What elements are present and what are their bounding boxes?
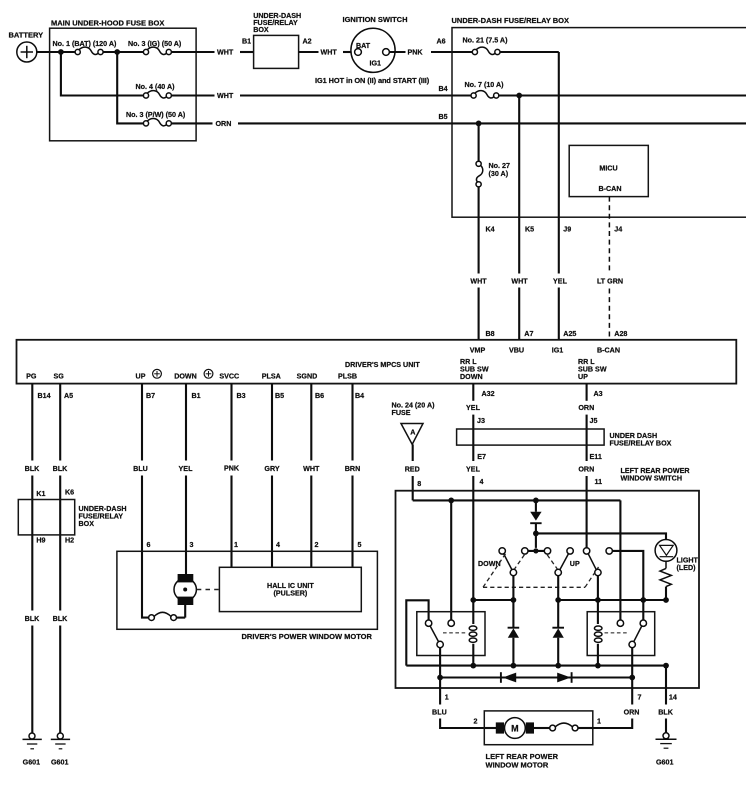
wire SG BLK <box>53 384 69 733</box>
wire PG BLK <box>25 384 41 733</box>
wire A3 ORN pin 11 <box>578 384 594 548</box>
ground G601 second <box>51 733 70 767</box>
wire branch down to No.4 <box>61 52 143 96</box>
svg-text:MICU: MICU <box>599 165 617 173</box>
svg-text:4: 4 <box>480 478 484 486</box>
svg-text:B5: B5 <box>275 392 284 400</box>
svg-text:K1: K1 <box>36 490 45 498</box>
commutator switch (driver motor) <box>149 605 186 621</box>
svg-text:YEL: YEL <box>466 465 481 473</box>
svg-text:WHT: WHT <box>217 49 234 57</box>
bus left (YEL node) <box>473 599 513 601</box>
svg-text:PNK: PNK <box>224 464 240 472</box>
motor symbol UP <box>153 369 162 378</box>
svg-text:IG1 HOT in ON (II) and START (: IG1 HOT in ON (II) and START (III) <box>315 76 430 85</box>
svg-text:2: 2 <box>474 718 478 726</box>
wire fuse24 RED pin 8 <box>405 444 420 500</box>
wire K4 vertical WHT <box>470 187 487 340</box>
left rear power window switch box <box>396 491 700 688</box>
wire RED to relay1 contact <box>450 500 452 620</box>
bus right (ground node) <box>558 599 666 601</box>
svg-text:MAIN UNDER-HOOD FUSE BOX: MAIN UNDER-HOOD FUSE BOX <box>51 19 164 28</box>
wire DOWN contact drop <box>512 576 514 600</box>
svg-text:BLK: BLK <box>658 708 674 716</box>
svg-text:UNDER-DASH FUSE/RELAY BOX: UNDER-DASH FUSE/RELAY BOX <box>452 16 570 25</box>
svg-text:BRN: BRN <box>345 465 360 473</box>
svg-text:1: 1 <box>445 694 449 702</box>
lower contact circles <box>510 569 601 575</box>
wire battery to fuse box <box>37 51 75 53</box>
svg-text:H9: H9 <box>36 536 45 544</box>
node contact6 drop <box>640 597 646 603</box>
svg-text:ORN: ORN <box>578 404 594 412</box>
node battery feed <box>58 49 64 55</box>
node YEL-coil1 <box>470 597 476 603</box>
svg-text:E11: E11 <box>590 453 602 461</box>
wire PNK to A6 <box>389 49 452 57</box>
fuse No.27 (30 A) vertical <box>476 123 510 186</box>
node RED to relay1 <box>448 498 454 504</box>
svg-text:SVCC: SVCC <box>219 372 239 380</box>
svg-text:FUSE/RELAY BOX: FUSE/RELAY BOX <box>610 440 672 448</box>
svg-text:(LED): (LED) <box>677 564 697 572</box>
svg-text:No. 3 (P/W) (50 A): No. 3 (P/W) (50 A) <box>126 111 186 119</box>
LED light <box>655 540 698 572</box>
wire row1 to B1 box <box>240 51 254 53</box>
node diode2 ground <box>555 663 561 669</box>
svg-text:RED: RED <box>405 465 420 473</box>
relay2 coil <box>594 600 602 666</box>
driver's power window motor box <box>117 551 378 641</box>
svg-text:4: 4 <box>276 541 280 549</box>
wire contact6 to ground bus <box>612 551 643 600</box>
wire row2 WHT to under-dash box <box>171 92 452 100</box>
fuse No.4 (40 A) <box>136 83 176 98</box>
node centre-diode <box>555 597 561 603</box>
node contact common <box>533 548 538 553</box>
svg-text:K5: K5 <box>525 225 534 233</box>
pin label RR L SUB SW UP <box>578 358 607 381</box>
node diode1 ground <box>511 663 517 669</box>
svg-text:G601: G601 <box>656 759 673 767</box>
svg-text:BOX: BOX <box>79 520 95 528</box>
wire B4 BRN <box>345 384 360 568</box>
wire pin14 BLK to ground <box>658 666 674 733</box>
svg-text:K4: K4 <box>486 225 495 233</box>
svg-text:YEL: YEL <box>553 278 568 286</box>
node diode out <box>533 531 539 537</box>
svg-text:(30 A): (30 A) <box>489 170 509 178</box>
node bus to pin14 <box>663 663 669 669</box>
wire B1 YEL <box>179 384 194 575</box>
wire B6 WHT <box>303 384 320 568</box>
svg-text:WINDOW SWITCH: WINDOW SWITCH <box>621 474 682 482</box>
svg-text:2: 2 <box>315 541 319 549</box>
svg-text:BAT: BAT <box>356 42 371 50</box>
ground G601 left <box>23 733 42 767</box>
relay1 dashed link <box>443 632 467 634</box>
svg-text:8: 8 <box>417 480 421 488</box>
node UP-coil2 <box>595 597 601 603</box>
svg-text:H2: H2 <box>65 536 74 544</box>
svg-text:B-CAN: B-CAN <box>597 347 620 355</box>
motor armature (left rear) <box>484 718 534 739</box>
hook relay1 NC contact to ground bus <box>406 600 428 665</box>
svg-text:No. 1 (BAT) (120 A): No. 1 (BAT) (120 A) <box>53 40 117 48</box>
svg-text:BLK: BLK <box>53 615 69 623</box>
wire UP contact drop <box>597 576 599 600</box>
svg-text:B14: B14 <box>38 392 51 400</box>
main under-hood fuse box <box>50 19 197 141</box>
svg-text:IG1: IG1 <box>552 347 564 355</box>
svg-text:J5: J5 <box>590 417 598 425</box>
svg-text:A2: A2 <box>303 38 312 46</box>
node RED to diode <box>533 498 539 504</box>
ignition switch <box>343 15 408 72</box>
svg-text:No. 21 (7.5 A): No. 21 (7.5 A) <box>463 36 509 44</box>
svg-text:No. 4 (40 A): No. 4 (40 A) <box>136 83 176 91</box>
link contact 2-3 <box>528 550 545 552</box>
svg-text:BLK: BLK <box>25 615 41 623</box>
blade DOWN switch <box>504 554 512 570</box>
svg-text:B6: B6 <box>315 392 324 400</box>
svg-text:WHT: WHT <box>470 278 487 286</box>
svg-text:DOWN: DOWN <box>174 372 197 380</box>
diode centre clamp <box>552 600 564 666</box>
svg-text:1: 1 <box>597 718 601 726</box>
svg-text:UP: UP <box>578 373 588 381</box>
svg-text:B5: B5 <box>439 113 448 121</box>
fuse No.3 (P/W) (50 A) <box>126 111 186 126</box>
wire relay2 output pin7 <box>593 648 640 728</box>
svg-text:UP: UP <box>136 372 146 380</box>
wire No.21 to J9 <box>500 51 559 53</box>
svg-text:GRY: GRY <box>264 465 279 473</box>
resistor for LED <box>660 561 671 600</box>
svg-text:B3: B3 <box>237 392 246 400</box>
motor symbol DOWN <box>204 369 213 378</box>
node K5 <box>516 93 522 99</box>
svg-text:A32: A32 <box>482 390 495 398</box>
svg-text:DOWN: DOWN <box>460 373 483 381</box>
svg-text:WHT: WHT <box>303 465 320 473</box>
node B5 <box>476 121 482 127</box>
fuse No.21 (7.5 A) <box>452 36 508 54</box>
blade centre switch <box>560 554 569 570</box>
wire A32 YEL pin 4 <box>466 384 481 601</box>
svg-text:YEL: YEL <box>179 465 194 473</box>
svg-text:7: 7 <box>638 694 642 702</box>
svg-text:G601: G601 <box>23 759 40 767</box>
wire B3 PNK <box>224 384 240 568</box>
svg-text:ORN: ORN <box>624 708 640 716</box>
driver's MPCS unit box <box>17 340 737 384</box>
contact row circles <box>499 548 612 554</box>
svg-text:G601: G601 <box>51 759 68 767</box>
svg-text:B4: B4 <box>355 392 364 400</box>
blade UP switch <box>588 554 596 570</box>
svg-text:B1: B1 <box>192 392 201 400</box>
wire RED to relay2 contact <box>619 500 621 620</box>
ground G601 right <box>656 733 677 767</box>
fuse No.3 (IG) (50 A) <box>128 40 182 55</box>
node LED return <box>663 597 669 603</box>
svg-text:(PULSER): (PULSER) <box>274 590 308 598</box>
under-dash fuse/relay box (ground pass) <box>18 500 126 535</box>
left rear power window motor box <box>484 711 593 770</box>
svg-text:BLU: BLU <box>133 465 148 473</box>
fuse No.7 (10 A) <box>452 81 504 98</box>
svg-text:J9: J9 <box>563 225 571 233</box>
svg-text:B1: B1 <box>242 38 251 46</box>
dashed actuator linkage <box>483 554 599 588</box>
svg-text:B7: B7 <box>146 392 155 400</box>
svg-text:PLSA: PLSA <box>262 372 281 380</box>
diode main feed <box>530 500 541 533</box>
hall IC unit (pulser) box <box>219 567 361 611</box>
svg-text:BLK: BLK <box>25 465 41 473</box>
diode DOWN clamp <box>508 600 520 666</box>
svg-text:6: 6 <box>147 541 151 549</box>
svg-text:1: 1 <box>234 541 238 549</box>
svg-text:WHT: WHT <box>321 49 338 57</box>
wire A2 WHT to ignition <box>299 49 355 57</box>
node DOWN-diode <box>511 597 517 603</box>
fuse No.1 (BAT) (120 A) <box>53 40 117 55</box>
svg-text:VMP: VMP <box>470 347 486 355</box>
svg-text:BOX: BOX <box>253 26 269 34</box>
wire fuse1 to fuse2 <box>103 51 143 53</box>
svg-text:A6: A6 <box>437 38 446 46</box>
svg-text:WHT: WHT <box>217 92 234 100</box>
svg-text:A25: A25 <box>563 330 576 338</box>
svg-text:ORN: ORN <box>216 120 232 128</box>
diode left (cross line) <box>501 672 516 683</box>
wire branch down to No.3 P/W <box>117 52 143 123</box>
svg-text:SGND: SGND <box>297 372 318 380</box>
node IG feed <box>114 49 120 55</box>
MICU box <box>569 145 648 196</box>
left rear power window switch title <box>621 467 691 483</box>
wire B7 BLU <box>133 384 148 618</box>
relay1 contacts <box>425 620 454 648</box>
svg-text:5: 5 <box>358 541 362 549</box>
svg-text:WINDOW MOTOR: WINDOW MOTOR <box>486 760 549 769</box>
svg-text:B4: B4 <box>439 85 448 93</box>
svg-text:DRIVER'S MPCS UNIT: DRIVER'S MPCS UNIT <box>345 361 420 369</box>
svg-text:BLK: BLK <box>53 465 69 473</box>
fuse No.24 (20 A) tap <box>392 402 436 445</box>
wire diode to contact common <box>535 533 537 548</box>
relay2 dashed link <box>605 632 629 634</box>
wire B5 GRY <box>264 384 279 568</box>
svg-text:B8: B8 <box>486 330 495 338</box>
wire row3 ORN to under-dash box <box>171 120 452 128</box>
relay1 coil <box>469 600 477 666</box>
svg-text:WHT: WHT <box>511 278 528 286</box>
svg-text:J3: J3 <box>477 417 485 425</box>
svg-text:A7: A7 <box>524 330 533 338</box>
wire centre contact drop <box>557 576 559 600</box>
svg-text:PLSB: PLSB <box>338 372 357 380</box>
wire K5 vertical WHT <box>511 96 528 340</box>
wire relay1 output pin1 <box>432 648 484 728</box>
under-dash fuse/relay box (top right) <box>452 16 746 217</box>
battery <box>9 31 44 63</box>
svg-text:14: 14 <box>669 694 677 702</box>
node coil1 ground <box>470 663 476 669</box>
diode right (cross line) <box>557 672 571 683</box>
svg-text:A28: A28 <box>614 330 627 338</box>
wire J4 dashed LT GRN <box>597 197 623 340</box>
svg-text:PG: PG <box>26 372 37 380</box>
wire LED feed <box>536 533 666 539</box>
svg-text:B-CAN: B-CAN <box>598 185 621 193</box>
svg-text:11: 11 <box>595 478 603 486</box>
svg-text:E7: E7 <box>477 453 486 461</box>
wire row B4 across box <box>499 94 746 96</box>
svg-text:A3: A3 <box>594 390 603 398</box>
motor armature (driver) <box>174 574 196 605</box>
svg-text:SG: SG <box>54 372 65 380</box>
dashed link motor to hall <box>197 589 220 591</box>
svg-text:M: M <box>511 723 519 733</box>
svg-text:LT GRN: LT GRN <box>597 278 623 286</box>
svg-text:FUSE: FUSE <box>392 409 411 417</box>
svg-text:YEL: YEL <box>466 404 481 412</box>
svg-text:No. 3 (IG) (50 A): No. 3 (IG) (50 A) <box>128 40 182 48</box>
svg-text:UP: UP <box>570 560 580 568</box>
svg-text:VBU: VBU <box>509 347 524 355</box>
svg-text:A5: A5 <box>64 392 73 400</box>
svg-text:DRIVER'S POWER WINDOW MOTOR: DRIVER'S POWER WINDOW MOTOR <box>242 632 373 641</box>
svg-text:A: A <box>410 428 415 436</box>
svg-text:K6: K6 <box>65 489 74 497</box>
wire RED feed bus <box>413 499 621 501</box>
relay coil box left <box>417 612 485 656</box>
node pin1 cross line <box>437 675 443 681</box>
under-dash fuse/relay box B1-A2 <box>253 12 301 69</box>
node coil2 ground <box>595 663 601 669</box>
wire row B5 across box <box>452 122 746 124</box>
under dash fuse/relay box (J3-J5) <box>457 429 672 448</box>
relay2 contacts <box>617 620 646 648</box>
svg-text:IGNITION SWITCH: IGNITION SWITCH <box>343 15 408 24</box>
relay coil box right <box>587 612 655 656</box>
pin label RR L SUB SW DOWN <box>460 358 489 381</box>
svg-text:BATTERY: BATTERY <box>9 31 44 40</box>
wire J9 vertical YEL <box>553 52 568 340</box>
ground bus <box>406 665 666 667</box>
svg-text:No. 7 (10 A): No. 7 (10 A) <box>465 81 505 89</box>
cross line pin1-pin7 <box>440 676 632 678</box>
thermal switch (left rear motor) <box>534 723 593 731</box>
svg-text:J4: J4 <box>614 225 622 233</box>
svg-text:3: 3 <box>190 541 194 549</box>
wire row1 out of fuse box <box>171 51 214 53</box>
svg-text:PNK: PNK <box>408 49 424 57</box>
wire relay2 drop to contact6 node <box>642 600 644 620</box>
svg-text:ORN: ORN <box>578 465 594 473</box>
svg-text:BLU: BLU <box>432 708 447 716</box>
svg-text:IG1: IG1 <box>370 59 382 67</box>
node pin7 cross line <box>629 675 635 681</box>
